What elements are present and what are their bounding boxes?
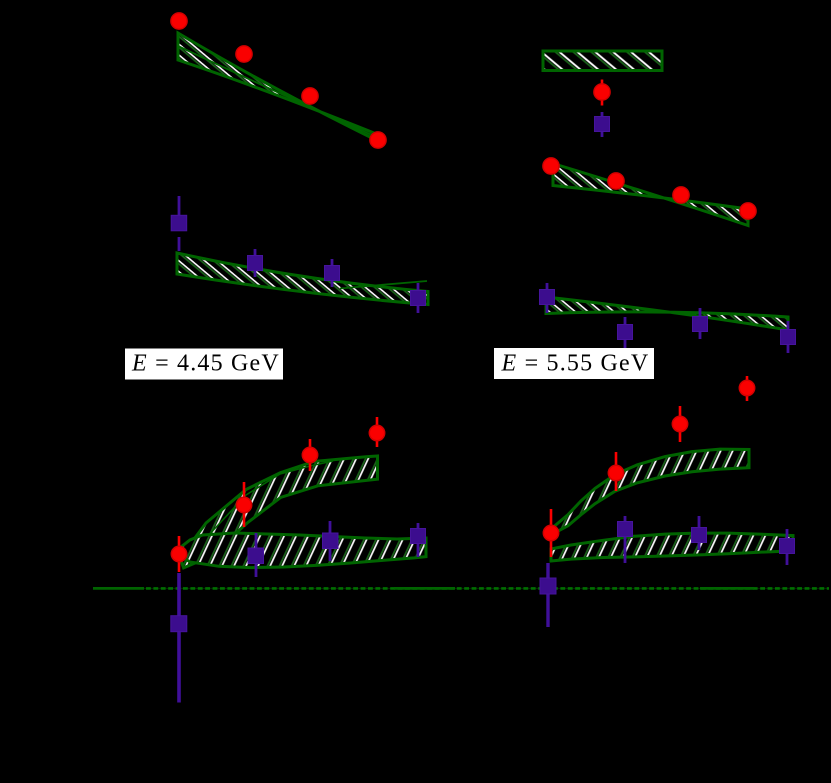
- svg-text:E = 4.45 GeV: E = 4.45 GeV: [131, 351, 280, 377]
- svg-text:E = 5.55 GeV: E = 5.55 GeV: [501, 351, 650, 377]
